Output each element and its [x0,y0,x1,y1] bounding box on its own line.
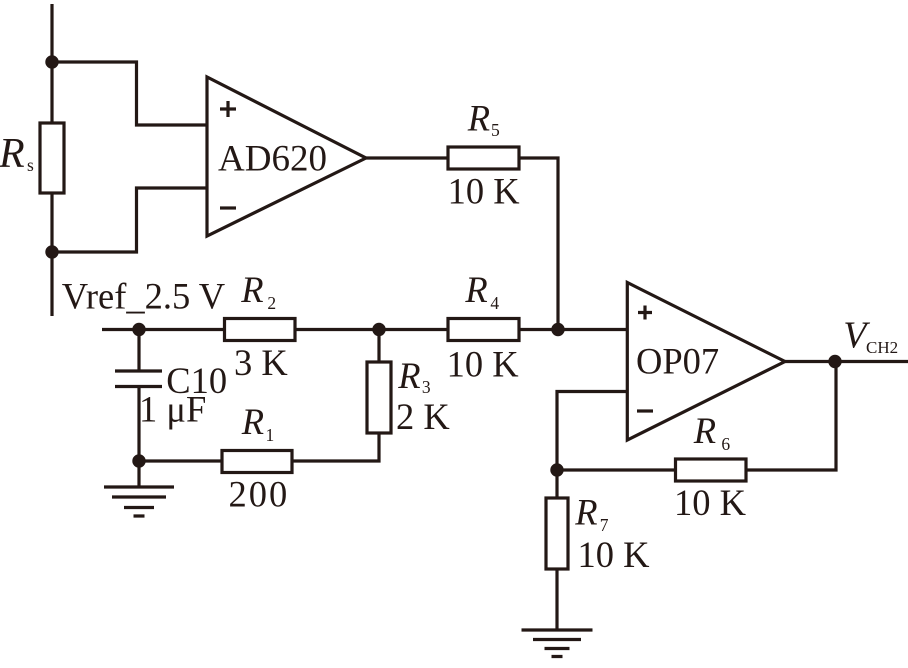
svg-text:10 K: 10 K [578,534,650,575]
svg-text:R: R [397,355,420,396]
svg-text:4: 4 [490,293,499,313]
svg-text:10 K: 10 K [674,482,746,523]
svg-text:Vref_2.5 V: Vref_2.5 V [62,276,225,317]
svg-text:R: R [467,98,490,139]
svg-text:10 K: 10 K [448,171,520,212]
svg-text:3: 3 [422,377,431,397]
svg-text:R: R [241,401,264,442]
svg-text:R: R [240,269,263,310]
svg-text:5: 5 [491,120,500,140]
svg-text:AD620: AD620 [218,139,327,180]
svg-text:R: R [0,131,25,177]
svg-text:1: 1 [266,425,275,445]
svg-text:200: 200 [229,474,290,515]
svg-text:OP07: OP07 [636,341,719,382]
svg-text:2 K: 2 K [396,396,450,437]
svg-text:R: R [693,410,716,451]
svg-text:R: R [574,492,597,533]
svg-text:10 K: 10 K [447,344,519,385]
svg-text:6: 6 [721,434,730,454]
svg-text:2: 2 [267,293,276,313]
svg-text:R: R [464,269,487,310]
svg-text:3 K: 3 K [234,342,288,383]
svg-text:1 μF: 1 μF [139,389,206,430]
svg-text:7: 7 [600,515,609,535]
svg-text:CH2: CH2 [866,338,898,357]
svg-text:s: s [27,155,34,175]
